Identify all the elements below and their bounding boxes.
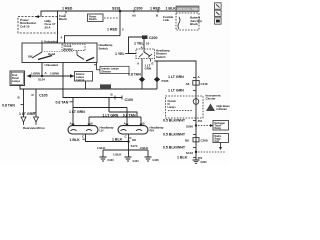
hot at all times banner [176,6,199,12]
svg-text:Switch: Switch [99,46,109,50]
wire high beam drop [156,61,158,89]
button zoom-in [215,3,222,9]
svg-text:1 BRN: 1 BRN [50,71,59,75]
svg-text:Rearview Mirror: Rearview Mirror [23,126,46,130]
svg-text:10: 10 [146,42,150,46]
connector C208 [193,138,199,142]
svg-text:Off: Off [28,54,32,58]
wire left lamp B drop [88,117,90,126]
low beam rail [89,116,141,118]
svg-text:0.5 BLK/WHT: 0.5 BLK/WHT [163,119,186,123]
wire mirror drop 1 [23,89,25,117]
indicator bulb [193,99,199,105]
instrument cluster dashed box [166,96,204,118]
svg-text:1 BRN: 1 BRN [31,71,40,75]
svg-text:1 LT GRN: 1 LT GRN [103,113,119,117]
svg-text:G8: G8 [132,138,136,142]
svg-text:Unloaded: Unloaded [44,39,57,43]
svg-text:C100: C100 [125,98,133,102]
button zoom-out [215,10,222,16]
svg-text:0.8 TAN: 0.8 TAN [2,104,15,108]
lamp terminal pads [72,124,74,126]
svg-text:1 BLK: 1 BLK [70,138,81,142]
svg-text:C200: C200 [134,7,142,11]
svg-text:451: 451 [198,119,203,123]
wire mid drop from C100 line [108,98,110,113]
ground drop 3 [147,150,149,157]
svg-text:1 BLK: 1 BLK [113,153,122,157]
interior lamps dimmer reference box [100,66,129,73]
svg-text:C200: C200 [149,36,157,40]
ground symbol G103 [100,157,107,161]
svg-text:1 LT GRN: 1 LT GRN [168,75,184,79]
svg-text:S143: S143 [186,151,193,155]
wire top feed line [41,11,176,17]
radio box [213,134,229,143]
wire cell box to rail [85,81,87,89]
wire RH ground [128,134,130,150]
svg-text:0.8 TAN: 0.8 TAN [56,101,69,105]
svg-text:0.5 BLK/WHT: 0.5 BLK/WHT [163,133,186,137]
high beam indicator symbol [206,104,215,112]
svg-text:Distrib: Distrib [89,18,97,21]
interior lamps feed rail [31,75,70,77]
svg-text:Indicator: Indicator [217,107,228,111]
svg-text:Cell 14: Cell 14 [76,78,85,82]
wire right lamp A drop [126,108,128,126]
wire dimmer low beam drop [141,59,143,89]
arrow on fuse block top edge [35,15,40,18]
svg-text:S174: S174 [131,144,138,148]
dashed ref to defogger [198,125,210,127]
circuit breaker dashed box [62,44,85,50]
svg-text:1 YEL: 1 YEL [115,52,126,56]
connector C100 ticks [114,96,116,100]
wire dimmer to right column (high beam) [155,61,197,160]
svg-text:1 BLK: 1 BLK [177,156,188,160]
power distribution reference box [88,14,104,22]
svg-text:C446: C446 [201,82,208,86]
interior lamps cell box [75,72,93,82]
svg-text:1 LT GRN: 1 LT GRN [19,112,35,116]
fusible link symbol [178,17,180,29]
node S174 [127,140,129,142]
dimmer switch contacts [144,50,150,57]
headlamp dimmer switch dashed box [136,49,155,59]
wire LH ground [86,134,129,142]
svg-text:Link: Link [163,18,169,22]
svg-text:Switch: Switch [156,55,166,59]
svg-text:1 RED: 1 RED [107,27,118,31]
svg-text:G108: G108 [153,159,160,162]
svg-text:C208: C208 [201,139,208,143]
mechanical link dashed [44,51,74,53]
splice lozenge 1 [139,77,145,83]
button print [215,18,222,24]
svg-text:P105: P105 [162,79,169,83]
svg-text:G104: G104 [133,160,140,163]
svg-text:S318: S318 [112,7,120,11]
filaments LH [71,129,93,130]
connector C446 grommet [193,81,199,86]
svg-text:1 RED: 1 RED [150,7,161,11]
filaments RH [121,129,143,130]
arrow to panel lamps box [27,74,32,78]
svg-text:20 A: 20 A [45,25,52,29]
svg-text:A8: A8 [186,82,190,86]
dashed ref right of S143 [198,151,226,153]
ground rail [103,149,148,151]
battery junction block dashed box [176,13,199,30]
connector C200 grommet [142,35,148,39]
headlamp RH bulb [118,126,148,134]
wire low beam feed from switch [63,63,122,98]
defogger timer relay box [213,121,229,131]
svg-text:Lamps: Lamps [12,79,21,83]
panel lamps box P100 [10,71,25,86]
svg-text:G200: G200 [201,161,208,164]
ground drop 1 [102,150,104,157]
node S318 [119,10,122,13]
ground symbol G200 [193,160,200,163]
node S206 [195,124,197,126]
wire dimmer feed [129,37,143,54]
wire mirror drop 2 [35,89,37,117]
svg-text:G103: G103 [108,159,115,162]
dashed reference wire to S318 drop [104,17,119,19]
svg-text:Relay: Relay [215,127,222,130]
svg-text:Head: Head [48,52,55,56]
headlamp switch box [22,43,97,63]
svg-text:1 BLK: 1 BLK [166,7,177,11]
svg-text:C105: C105 [39,94,47,98]
mid jog wire [109,112,137,117]
svg-text:Lamps: Lamps [168,105,177,109]
dashed ref inside cluster [168,110,192,112]
svg-text:Unloaded: Unloaded [45,63,58,67]
connector grommet on rail [100,84,111,89]
connector arrow 1 [21,117,26,122]
ground drop 2 [128,150,130,157]
ground symbol G104 [125,157,132,161]
wire grommet to dimmer pin 10 [143,39,145,49]
svg-text:Breaker: Breaker [64,47,73,51]
svg-text:1 BLK: 1 BLK [97,146,106,150]
svg-text:Cluster: Cluster [206,97,217,101]
ground symbol G108 [145,157,152,161]
svg-text:0.8 TAN: 0.8 TAN [128,72,141,76]
wire fuse drop [57,11,59,43]
svg-text:1 BLK: 1 BLK [112,137,123,141]
svg-text:A5: A5 [132,14,136,18]
svg-text:S206: S206 [186,125,193,129]
connector arrow 2 [34,117,39,122]
switch pole 1 [41,43,43,52]
pin C unloaded (bottom) [41,63,43,77]
switch pole 2 [76,51,78,55]
svg-text:Block: Block [190,22,198,26]
svg-text:HOT AT ALL TIMES: HOT AT ALL TIMES [177,8,199,11]
pin B unloaded (top) [41,41,43,44]
node S124 [41,75,43,77]
svg-text:2 BLK: 2 BLK [140,146,149,150]
interior lamps long rail [20,86,157,90]
wire red feed to switch [65,36,121,43]
svg-text:1 LT GRN: 1 LT GRN [168,89,184,93]
splice lozenge 2 [154,77,160,83]
wire left lamp A drop [72,98,74,126]
svg-text:RH: RH [150,129,154,133]
svg-text:S124: S124 [38,78,45,82]
arrow into interior lamps cell box [70,74,75,78]
svg-text:0.8 TAN: 0.8 TAN [123,113,136,117]
svg-text:0.5 BLK/WHT: 0.5 BLK/WHT [163,146,186,150]
svg-text:1 YEL: 1 YEL [134,42,145,46]
svg-text:Dimmer: Dimmer [102,69,111,73]
svg-text:GRN: GRN [145,67,152,71]
wire S318 drop [119,11,121,36]
svg-text:LH: LH [100,129,104,133]
svg-text:B8: B8 [185,139,189,143]
fuse block dashed box (underhood) [18,17,58,34]
headlamp LH bulb [68,126,98,134]
arrow from radio box [220,143,222,148]
svg-text:Cell: Cell [215,140,220,143]
svg-text:Cell 10: Cell 10 [20,24,30,28]
pin right of switch [96,63,98,70]
high beam rail [73,107,127,109]
wire right lamp B drop [140,117,142,126]
svg-text:E: E [152,61,154,65]
svg-text:1 RED: 1 RED [62,7,73,11]
node S143 [195,151,197,153]
svg-text:1 LT GRN: 1 LT GRN [69,110,85,114]
